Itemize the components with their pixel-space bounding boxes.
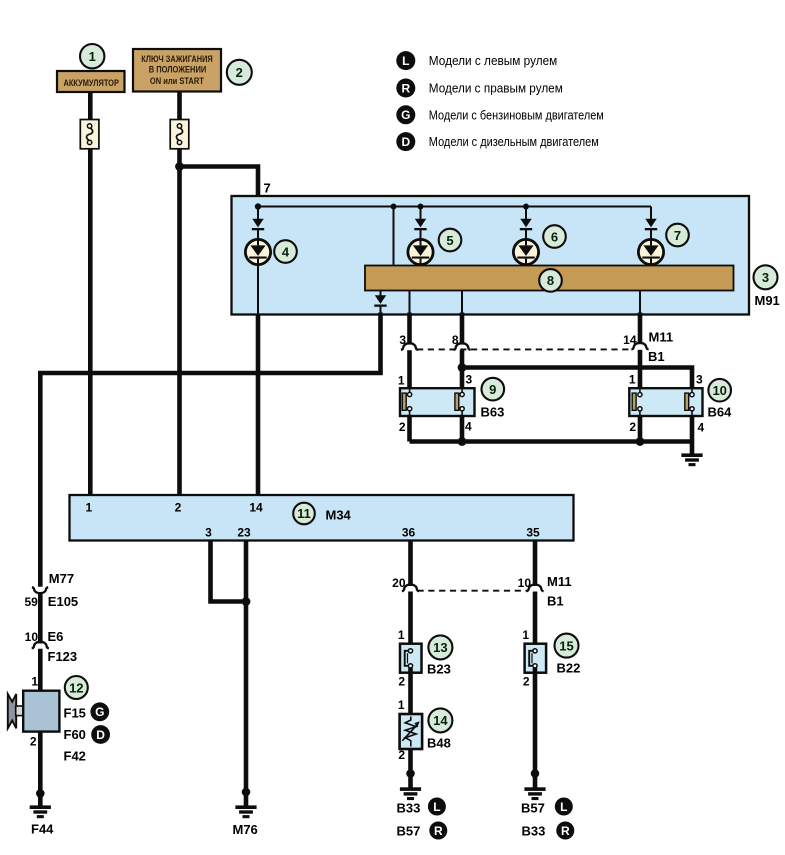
svg-text:R: R [434, 824, 443, 838]
horn mount cylinder [16, 706, 24, 716]
terminal dot above left B ground [406, 769, 415, 778]
svg-text:B64: B64 [708, 405, 733, 420]
R badge (right ground) [556, 822, 574, 840]
svg-text:G: G [95, 705, 104, 719]
wire M34 pin 36 to connector 20 [408, 540, 413, 586]
svg-text:2: 2 [523, 674, 530, 688]
wire rail to printed bar 8 [393, 207, 395, 267]
svg-text:M11: M11 [649, 330, 674, 345]
ground symbol B33/B57 left [400, 787, 421, 800]
horn unit box (item 12) [23, 691, 59, 732]
svg-text:Модели с левым рулем: Модели с левым рулем [429, 54, 558, 68]
wire arc8 to B63 pin 3 [460, 350, 465, 389]
wire arc20 to B23 pin 1 [408, 592, 413, 649]
wire B23 to B48 [408, 668, 413, 717]
wire E105 to E6 [38, 593, 43, 644]
dashed harness line top [417, 348, 633, 350]
indicator lamp 5 (LED) [408, 230, 433, 266]
junction on rail lamp6 [523, 204, 529, 210]
node 5 marker [439, 229, 462, 252]
svg-text:3: 3 [399, 333, 406, 347]
svg-text:1: 1 [86, 501, 93, 515]
wire junction to B64 pin 3 [462, 368, 692, 390]
svg-text:Модели с правым рулем: Модели с правым рулем [429, 82, 563, 96]
node 1 marker (battery) [80, 44, 104, 68]
node 11 marker [293, 503, 315, 525]
diode above lamp 4 [252, 207, 264, 231]
junction on rail lamp5 [418, 204, 424, 210]
svg-text:3: 3 [205, 526, 212, 540]
svg-text:L: L [433, 800, 440, 814]
wire B22 to ground [533, 668, 538, 774]
fuse 2 [170, 120, 189, 149]
svg-text:L: L [560, 800, 567, 814]
wire B64 pin 2 down [638, 415, 643, 442]
svg-text:7: 7 [264, 181, 271, 196]
svg-text:F60: F60 [64, 727, 86, 742]
svg-text:1: 1 [31, 675, 38, 689]
dashed harness line bottom [418, 590, 529, 592]
ground symbol under B64 [681, 453, 702, 466]
terminal dot above right B ground [531, 769, 540, 778]
svg-text:КЛЮЧ ЗАЖИГАНИЯ: КЛЮЧ ЗАЖИГАНИЯ [141, 54, 213, 64]
svg-text:B57: B57 [521, 800, 545, 815]
R badge (left ground) [429, 822, 447, 840]
control unit M34 box [70, 495, 574, 541]
svg-text:B22: B22 [557, 661, 581, 676]
svg-text:59: 59 [24, 595, 38, 609]
svg-text:2: 2 [175, 501, 182, 515]
junction below pin 8 [458, 363, 467, 372]
svg-text:2: 2 [629, 420, 636, 434]
wire into left B ground [408, 774, 413, 788]
node 7 marker [666, 224, 689, 247]
resistor block B63 [400, 388, 475, 416]
junction at key branch [175, 162, 184, 171]
wire arc14 to B64 pin 1 [638, 350, 643, 390]
diode below bar (speaker output) [374, 291, 386, 315]
terminal dot above M76 ground [242, 788, 251, 797]
svg-text:4: 4 [698, 421, 705, 435]
svg-text:3: 3 [466, 372, 473, 386]
bar output wire to pin14 column [639, 291, 641, 315]
terminal dot above F44 ground [36, 789, 45, 798]
wire B63 pin 2 down [407, 415, 412, 442]
svg-text:В ПОЛОЖЕНИИ: В ПОЛОЖЕНИИ [149, 65, 207, 75]
connector arc pin 3 [401, 343, 418, 350]
wire key to fuse F2 [177, 92, 182, 122]
junction on rail bar feed [391, 204, 397, 210]
D badge [91, 725, 110, 744]
G badge [90, 702, 109, 721]
svg-text:15: 15 [559, 638, 573, 653]
wire B48 to ground [408, 748, 413, 774]
switch B22 [525, 644, 547, 673]
svg-text:4: 4 [465, 420, 472, 434]
bar output wire to pin8 column [461, 291, 463, 315]
svg-text:2: 2 [398, 748, 405, 762]
L badge (right ground) [555, 798, 573, 816]
wire fuse1 to M34 pin 1 [88, 149, 93, 496]
wire M34 pin 23 to ground M76 [244, 540, 249, 792]
connector arc pin 20 [402, 585, 419, 592]
wire B64 pin 4 to ground [690, 415, 695, 454]
junction pins 3+23 [242, 597, 251, 606]
ground symbol F44 [30, 805, 51, 818]
wire M91 to connector pin 8 [460, 313, 465, 345]
fuse 1 [80, 120, 99, 149]
wire into M76 ground [244, 792, 249, 806]
svg-text:B23: B23 [427, 662, 451, 677]
node 8 marker [539, 269, 562, 292]
wire branch to pin 7 of M91 [180, 167, 259, 207]
svg-text:F123: F123 [48, 649, 78, 664]
svg-text:1: 1 [89, 49, 96, 64]
ground symbol B57/B33 right [524, 787, 545, 800]
svg-text:F44: F44 [31, 822, 54, 837]
wire M91 to connector pin 14 [638, 313, 643, 345]
junction B63 pin4 [458, 437, 467, 446]
svg-text:8: 8 [547, 273, 554, 288]
svg-text:F15: F15 [64, 705, 86, 720]
node 9 marker [482, 378, 505, 401]
node 4 marker [274, 240, 297, 263]
svg-text:R: R [401, 81, 410, 95]
wire lamp4 to box edge [257, 265, 259, 315]
wire horn to ground F44 [38, 732, 43, 794]
junction on rail at pin7 entry [255, 203, 261, 209]
svg-text:АККУМУЛЯТОР: АККУМУЛЯТОР [63, 78, 119, 88]
ground symbol M76 [235, 805, 256, 818]
svg-text:3: 3 [762, 270, 769, 285]
wire M34 pin 35 to connector 10 [533, 540, 538, 586]
wire M34 pin 3 jog [211, 540, 247, 602]
svg-text:14: 14 [433, 713, 448, 728]
wire F123 to horn [38, 649, 43, 692]
svg-text:1: 1 [398, 698, 405, 712]
svg-text:B33: B33 [397, 800, 421, 815]
wire arc3 to B63 pin 1 [407, 350, 412, 389]
combination meter unit M91 box [232, 196, 750, 315]
svg-text:4: 4 [282, 244, 290, 259]
ground bus wire [410, 439, 693, 444]
svg-text:2: 2 [399, 420, 406, 434]
wire M91 to horn branch (down, left, down to M77) [40, 313, 380, 587]
wire into F44 ground [38, 793, 43, 805]
node 14 marker [428, 708, 452, 732]
svg-text:B57: B57 [397, 824, 421, 839]
wire into right B ground [533, 774, 538, 788]
svg-text:M77: M77 [49, 571, 74, 586]
switch B23 [400, 644, 422, 673]
wire B63 pin 4 down [460, 415, 465, 442]
indicator lamp 6 (LED) [513, 230, 538, 266]
junction B64 pin2 [636, 437, 645, 446]
svg-text:E6: E6 [48, 629, 64, 644]
legend G circle [396, 105, 415, 124]
thermistor B48 [400, 714, 423, 749]
svg-text:Модели с бензиновым двигателем: Модели с бензиновым двигателем [429, 108, 604, 122]
svg-text:10: 10 [518, 576, 532, 590]
svg-text:M76: M76 [233, 822, 258, 837]
svg-text:М34: М34 [326, 508, 352, 523]
svg-text:2: 2 [30, 735, 37, 749]
svg-text:1: 1 [398, 628, 405, 642]
diode above lamp 6 [520, 207, 532, 231]
svg-text:7: 7 [674, 228, 681, 243]
svg-text:B33: B33 [522, 824, 546, 839]
svg-text:F42: F42 [64, 749, 86, 764]
legend L circle [396, 51, 415, 70]
node 10 marker [708, 379, 731, 402]
indicator lamp 7 (LED) [638, 230, 663, 266]
wire M91 lamp4 to M34 pin 14 [256, 314, 261, 496]
svg-text:Модели с дизельным двигателем: Модели с дизельным двигателем [429, 135, 599, 149]
svg-text:3: 3 [696, 372, 703, 386]
resistor block B64 [629, 388, 702, 416]
svg-text:5: 5 [446, 233, 453, 248]
svg-text:14: 14 [249, 501, 263, 515]
svg-text:E105: E105 [48, 594, 78, 609]
battery source box АККУМУЛЯТОР [57, 71, 125, 92]
svg-text:13: 13 [433, 640, 447, 655]
svg-text:14: 14 [623, 333, 637, 347]
svg-text:20: 20 [392, 576, 406, 590]
svg-text:ON или START: ON или START [150, 76, 204, 86]
diode above lamp 5 [414, 207, 426, 231]
svg-text:B1: B1 [547, 593, 564, 608]
node 13 marker [428, 635, 452, 659]
svg-text:1: 1 [629, 372, 636, 386]
svg-text:B1: B1 [648, 349, 665, 364]
node 2 marker (ignition key) [227, 60, 252, 85]
diode above lamp 7 [645, 219, 657, 231]
connector arc pin 14 [631, 343, 648, 350]
svg-text:8: 8 [452, 333, 459, 347]
connector arc pin 10 [526, 585, 543, 592]
svg-text:23: 23 [237, 526, 251, 540]
bar output wire to pin3 column [409, 291, 411, 315]
svg-text:R: R [561, 824, 570, 838]
svg-text:11: 11 [297, 506, 311, 521]
connector arc pin 8 [453, 343, 470, 350]
svg-text:12: 12 [69, 680, 83, 695]
svg-text:2: 2 [236, 65, 243, 80]
printed circuit bar 8 [365, 266, 734, 291]
wire battery to fuse F1 [88, 93, 93, 122]
svg-text:35: 35 [526, 526, 540, 540]
svg-text:10: 10 [712, 383, 726, 398]
rail corner to lamp 7 [650, 207, 652, 220]
svg-text:G: G [401, 108, 410, 122]
internal supply rail wire [258, 206, 651, 208]
svg-text:9: 9 [489, 382, 496, 397]
ignition key source box [133, 49, 221, 92]
connector arc E6/F123 (cap) [32, 642, 49, 649]
legend R circle [396, 79, 415, 98]
svg-text:M91: M91 [755, 293, 780, 308]
node 12 marker [65, 676, 88, 699]
wire M91 to connector pin 3 [407, 313, 412, 345]
node 6 marker [543, 225, 566, 248]
svg-text:L: L [402, 54, 409, 68]
horn bracket (diaphragm) [8, 694, 16, 728]
node 15 marker [555, 634, 579, 658]
svg-text:6: 6 [551, 229, 558, 244]
svg-text:D: D [401, 135, 410, 149]
indicator lamp 4 (LED) [245, 230, 270, 265]
svg-text:D: D [96, 728, 105, 742]
svg-text:M11: M11 [547, 574, 572, 589]
svg-text:2: 2 [398, 674, 405, 688]
connector arc M77/E105 (cup) [32, 587, 48, 593]
svg-text:B63: B63 [481, 405, 505, 420]
wire arc10 to B22 pin 1 [533, 592, 538, 649]
L badge (left ground) [428, 798, 446, 816]
svg-text:B48: B48 [427, 736, 451, 751]
wire fuse2 to M34 pin 2 [177, 149, 182, 496]
svg-text:1: 1 [522, 628, 529, 642]
svg-text:1: 1 [398, 373, 405, 387]
legend D circle [396, 132, 415, 151]
svg-text:36: 36 [402, 526, 416, 540]
node 3 marker [754, 265, 778, 289]
